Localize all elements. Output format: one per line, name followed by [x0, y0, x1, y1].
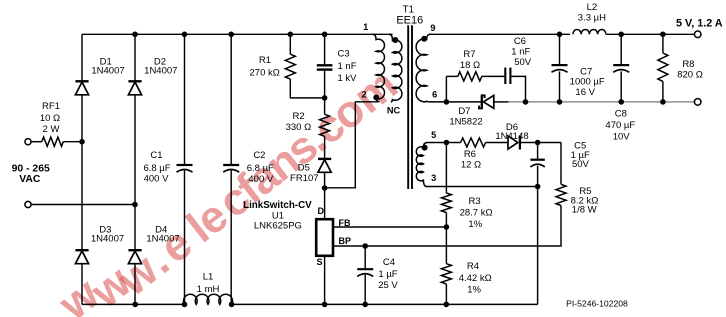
svg-text:LinkSwitch-CV: LinkSwitch-CV	[243, 200, 312, 211]
svg-text:FR107: FR107	[290, 173, 319, 184]
svg-text:1/8 W: 1/8 W	[572, 205, 597, 216]
node C2 top rail	[228, 32, 234, 38]
node D2 top rail	[132, 32, 138, 38]
svg-text:5 V, 1.2 A: 5 V, 1.2 A	[676, 18, 723, 30]
svg-text:10 Ω: 10 Ω	[40, 113, 60, 124]
svg-text:S: S	[316, 257, 322, 267]
node C7 bottom	[557, 99, 563, 105]
svg-text:9: 9	[430, 23, 435, 33]
transformer T1 feedback winding	[416, 143, 427, 187]
node C6 / return junction	[523, 99, 529, 105]
svg-text:4.42 kΩ: 4.42 kΩ	[459, 273, 492, 284]
wire R7 to C6	[482, 75, 505, 77]
svg-text:C7: C7	[580, 66, 592, 77]
wire R2 to D5 cathode	[324, 136, 326, 158]
node C8 bottom	[618, 99, 624, 105]
svg-text:330 Ω: 330 Ω	[286, 122, 312, 133]
svg-text:C2: C2	[253, 150, 265, 161]
wire C4 top lead	[364, 246, 366, 268]
svg-text:18 Ω: 18 Ω	[460, 60, 480, 71]
node R8 top	[660, 32, 666, 38]
svg-text:6: 6	[432, 90, 437, 100]
capacitor C2	[223, 164, 239, 166]
svg-text:1 mH: 1 mH	[197, 284, 220, 295]
wire pin 3 to C5 bottom node	[427, 186, 538, 188]
resistor R8	[658, 53, 668, 81]
svg-text:50V: 50V	[572, 159, 590, 170]
phase dot primary aux	[392, 37, 398, 43]
svg-text:2: 2	[361, 90, 366, 100]
svg-text:50V: 50V	[514, 57, 532, 68]
svg-text:D5: D5	[298, 163, 310, 174]
svg-text:470 µF: 470 µF	[605, 120, 635, 131]
svg-text:C1: C1	[150, 150, 162, 161]
svg-text:PI-5246-102208: PI-5246-102208	[566, 298, 628, 308]
inductor L1	[183, 294, 232, 304]
svg-text:12 Ω: 12 Ω	[461, 160, 481, 171]
node C5 bottom / pin3	[535, 184, 541, 190]
node R4 bottom rail	[444, 302, 450, 308]
wire D6 to R5 corner	[521, 142, 561, 144]
wire snubber top left	[446, 75, 457, 77]
node C3 top rail	[322, 32, 328, 38]
wire C5 bottom lead	[537, 166, 539, 187]
svg-text:L1: L1	[203, 271, 214, 282]
wire bottom rail right of L1	[232, 303, 538, 305]
output terminal return	[694, 99, 701, 106]
input terminal lower	[25, 201, 31, 207]
wire C5 node to bottom rail	[537, 187, 539, 305]
wire R5 top lead	[560, 143, 562, 185]
transformer T1 primary aux winding	[389, 34, 402, 102]
wire RF1 input to left rail	[31, 141, 42, 143]
wire C6 to return	[512, 76, 526, 102]
wire FB pin to divider	[333, 226, 446, 228]
wire C8 bottom lead	[620, 71, 622, 102]
node C4 bottom rail	[362, 302, 368, 308]
capacitor C3	[317, 64, 333, 66]
svg-text:3.3 µH: 3.3 µH	[578, 13, 606, 24]
node R1/C3 clamp bottom	[322, 95, 328, 101]
node R1 top rail	[288, 32, 294, 38]
phase dot secondary	[421, 36, 427, 42]
svg-text:6.8 µF: 6.8 µF	[143, 163, 170, 174]
node D6/C5 junction	[535, 140, 541, 146]
capacitor C4	[357, 268, 373, 270]
svg-text:R4: R4	[467, 261, 479, 272]
svg-text:1N4148: 1N4148	[495, 131, 528, 142]
svg-text:90 - 265: 90 - 265	[12, 164, 50, 175]
wire R1 top lead	[289, 34, 291, 54]
wire C2 column upper	[230, 34, 232, 164]
node C8 top	[618, 32, 624, 38]
capacitor C7	[552, 64, 568, 66]
svg-text:1 kV: 1 kV	[338, 73, 358, 84]
svg-text:EE16: EE16	[396, 15, 423, 27]
svg-text:10V: 10V	[613, 132, 631, 143]
wire D7 anode segment	[494, 101, 509, 103]
wire C7 bottom lead	[559, 71, 561, 102]
node RF1 / left rail junction	[79, 139, 85, 145]
wire C8 top lead	[620, 34, 622, 64]
svg-text:C4: C4	[383, 257, 395, 268]
wire C3 top lead	[324, 34, 326, 64]
wire BP pin to R5	[333, 206, 561, 247]
wire R8 top lead	[662, 34, 664, 53]
svg-text:C8: C8	[615, 109, 627, 120]
wire C1 column upper	[184, 34, 186, 164]
node C7 top	[557, 32, 563, 38]
svg-text:5: 5	[431, 130, 436, 140]
capacitor C5	[530, 159, 544, 161]
capacitor C6	[504, 68, 506, 84]
wire R7/C6 snubber riser	[445, 76, 447, 102]
svg-text:RF1: RF1	[42, 101, 60, 112]
svg-text:400 V: 400 V	[144, 173, 169, 184]
transformer T1 secondary winding	[416, 34, 430, 102]
wire secondary output left of L2	[429, 33, 570, 35]
resistor R2	[320, 114, 330, 136]
capacitor C8	[613, 64, 629, 66]
svg-text:1N4007: 1N4007	[91, 234, 124, 245]
svg-text:1N4007: 1N4007	[91, 66, 124, 77]
svg-text:R3: R3	[469, 196, 481, 207]
diode D5	[318, 158, 331, 160]
svg-text:16 V: 16 V	[575, 87, 595, 98]
svg-text:FB: FB	[339, 218, 351, 228]
svg-text:BP: BP	[339, 236, 352, 246]
svg-text:820 Ω: 820 Ω	[677, 69, 703, 80]
wire R1 bottom lead to C3 node	[290, 79, 324, 98]
node L1/C2 junction	[229, 302, 235, 308]
svg-text:D: D	[317, 206, 324, 216]
svg-text:28.7 kΩ: 28.7 kΩ	[460, 207, 493, 218]
svg-text:1%: 1%	[467, 285, 481, 296]
svg-text:R6: R6	[464, 149, 476, 160]
wire top rail (rectifier output to T1 primary)	[82, 33, 393, 35]
svg-text:1N4007: 1N4007	[146, 234, 179, 245]
resistor R4	[441, 264, 451, 284]
node D4 bottom rail	[132, 302, 138, 308]
svg-text:25 V: 25 V	[378, 280, 398, 291]
op-amp U1 LinkSwitch-CV package	[316, 219, 333, 256]
wire R8 bottom lead	[662, 81, 664, 102]
svg-text:3: 3	[431, 173, 436, 183]
node FB/divider junction	[444, 224, 450, 230]
wire bottom rail left of L1	[82, 303, 185, 305]
wire R4 to bottom rail	[445, 284, 447, 304]
resistor R6	[461, 138, 486, 147]
resistor R5	[556, 184, 566, 205]
wire left rail (D1/D3 column)	[81, 34, 83, 304]
wire D5 anode to drain node	[324, 172, 326, 188]
svg-text:R2: R2	[293, 111, 305, 122]
wire pin 5 to R6	[427, 142, 461, 144]
svg-text:C3: C3	[338, 48, 350, 59]
phase dot feedback winding	[422, 145, 428, 151]
svg-text:6.8 µF: 6.8 µF	[247, 163, 274, 174]
wire C5 top lead	[537, 143, 539, 159]
diode D3	[75, 249, 88, 251]
svg-text:400 V: 400 V	[248, 174, 273, 185]
node pin5/R3 junction	[444, 140, 450, 146]
wire feedback divider column upper (pin5 node to R3)	[445, 143, 447, 194]
svg-text:1 µF: 1 µF	[378, 269, 397, 280]
svg-text:1%: 1%	[468, 219, 482, 230]
wire C4 bottom lead	[364, 275, 366, 305]
diode D7 schottky	[483, 95, 493, 108]
svg-text:VAC: VAC	[19, 174, 41, 185]
node drain	[322, 185, 328, 191]
wire lower AC input	[31, 204, 135, 206]
svg-text:1N4007: 1N4007	[144, 66, 177, 77]
resistor R3	[441, 193, 451, 213]
svg-text:1 nF: 1 nF	[511, 46, 530, 57]
wire drain node to primary pin 2	[325, 102, 378, 188]
svg-text:1: 1	[363, 22, 368, 32]
svg-text:R7: R7	[463, 49, 475, 60]
diode D2	[128, 80, 141, 82]
svg-text:270 kΩ: 270 kΩ	[250, 67, 280, 78]
svg-text:NC: NC	[387, 106, 401, 116]
svg-text:LNK625PG: LNK625PG	[254, 221, 302, 232]
svg-text:C6: C6	[514, 36, 526, 47]
wire secondary output right of L2	[606, 33, 695, 35]
svg-text:1000 µF: 1000 µF	[570, 77, 605, 88]
wire C7 top lead	[559, 34, 561, 64]
svg-text:R1: R1	[259, 55, 271, 66]
resistor R1	[285, 54, 295, 79]
wire C2 column lower	[230, 171, 232, 305]
node C1/L1 junction	[182, 302, 188, 308]
wire secondary return (gray)	[509, 101, 695, 103]
wire drain node to U1 drain	[324, 188, 326, 219]
wire C3 bottom lead	[324, 71, 326, 98]
svg-text:L2: L2	[587, 2, 598, 13]
transformer T1 primary winding	[373, 34, 385, 102]
svg-text:1N5822: 1N5822	[449, 116, 482, 127]
transformer core	[407, 25, 409, 189]
output terminal positive	[694, 31, 701, 38]
svg-text:1 nF: 1 nF	[338, 61, 357, 72]
wire R3 to FB node to R4	[445, 213, 447, 264]
node R8 bottom	[660, 99, 666, 105]
wire pin 6 to D7	[430, 101, 482, 103]
node C1 top rail	[182, 32, 188, 38]
node primary pin 2 phase dot	[373, 95, 379, 101]
node lower input / D2-D4 junction	[132, 202, 138, 208]
diode D1	[75, 80, 88, 82]
svg-text:2 W: 2 W	[43, 124, 60, 135]
diode D6	[508, 136, 518, 149]
resistor RF1	[42, 137, 64, 146]
svg-text:R8: R8	[682, 59, 694, 70]
inductor L2	[573, 29, 606, 34]
capacitor C1	[177, 164, 193, 166]
diode D4	[128, 249, 141, 251]
resistor R7	[458, 72, 482, 81]
wire C1 column lower	[184, 171, 186, 305]
node BP/C4 junction	[362, 243, 368, 249]
node pin 6 / snubber junction	[444, 99, 450, 105]
wire U1 source to bottom rail	[324, 256, 326, 304]
node U1 source rail	[322, 302, 328, 308]
input terminal upper	[25, 139, 31, 145]
wire C3/R2 node to R2	[324, 98, 326, 114]
wire D2/D4 column	[134, 34, 136, 304]
wire R6 to D6	[486, 142, 508, 144]
